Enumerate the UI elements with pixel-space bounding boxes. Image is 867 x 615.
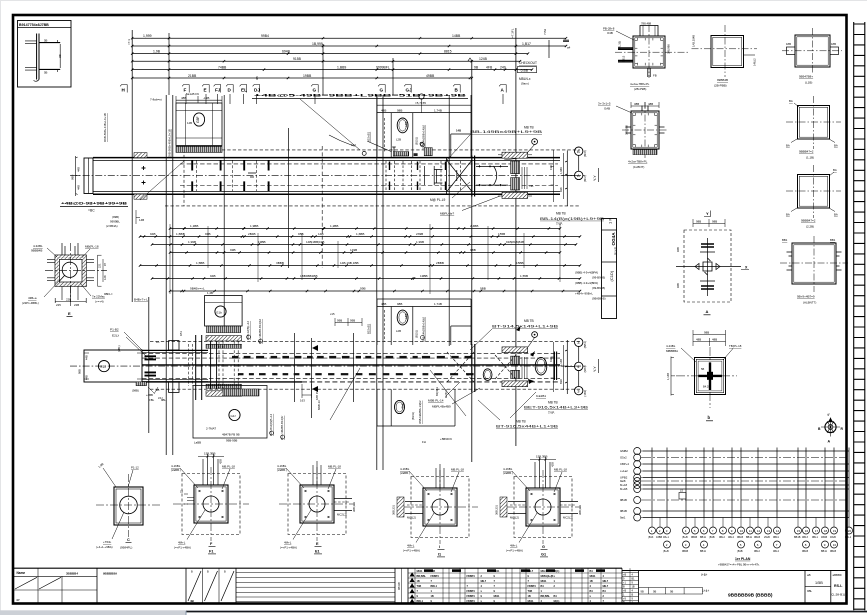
svg-text:7: 7: [417, 590, 419, 593]
svg-text:1B: 1B: [590, 580, 593, 583]
vertical drawing label box (C1D) OG4A: [602, 219, 617, 319]
svg-text:5B: 5B: [44, 39, 48, 43]
A detail dims: [693, 219, 725, 227]
svg-text:aBBB9: aBBB9: [833, 573, 842, 577]
svg-text:22B: 22B: [74, 303, 79, 307]
svg-text:FH: FH: [422, 440, 426, 444]
small leader circles above beam connection: [532, 139, 538, 145]
upper beam dashed outline above/below: [184, 149, 580, 151]
svg-text:1,55B: 1,55B: [520, 274, 528, 278]
svg-text:x: x: [590, 595, 592, 598]
svg-text:43B+a: 43B+a: [28, 296, 37, 300]
box above beam with circled G1b1: [205, 296, 243, 327]
svg-text:9B41: 9B41: [773, 536, 779, 539]
svg-text:4: 4: [632, 574, 634, 577]
svg-text:GAB: GAB: [604, 107, 610, 111]
svg-text:+B: +B: [623, 590, 626, 593]
bottom stubs + dims: [55, 286, 86, 303]
A1 bottom stub: [648, 68, 650, 77]
svg-text:7: 7: [494, 580, 496, 583]
svg-text:9B1B: 9B1B: [620, 509, 627, 513]
svg-text:(8F8): (8F8): [583, 150, 587, 157]
svg-text:99B: 99B: [337, 318, 342, 322]
right side dim verticals of connection: [551, 150, 564, 202]
svg-text:BBL1: BBL1: [417, 600, 424, 603]
svg-text:(99-B9+B): (99-B9+B): [592, 286, 605, 290]
svg-text:4B13: 4B13: [802, 536, 808, 539]
svg-text:BB,BBL: BB,BBL: [541, 595, 551, 598]
svg-text:9BB1(2+(B: 9BB1(2+(B: [541, 575, 554, 578]
svg-text:1: 1: [623, 594, 625, 597]
oval label C1b2: [397, 118, 408, 133]
legend box (diaphragm installation): [18, 21, 72, 88]
svg-text:-5.BB: -5.BB: [520, 68, 529, 72]
right detail B1: elevation square: [711, 36, 744, 68]
svg-text:E2Lλ: E2Lλ: [112, 334, 120, 338]
svg-text:BB1: BB1: [782, 238, 788, 242]
key plan grid: [643, 450, 849, 452]
svg-text:(=+P1-+4BA): (=+P1-+4BA): [403, 549, 420, 553]
svg-text:8: 8: [805, 543, 807, 547]
svg-text:1B2: 1B2: [404, 121, 408, 127]
svg-text:B: B: [632, 594, 634, 597]
upper beam centerline: [70, 174, 585, 176]
svg-text:1 P: 1 P: [608, 218, 613, 224]
svg-text:I: I: [439, 545, 440, 549]
svg-text:9B4B: 9B4B: [682, 550, 688, 553]
long grid verticals: [132, 28, 549, 470]
top dimension labels: [143, 34, 531, 78]
svg-text:1,6BB: 1,6BB: [356, 232, 364, 236]
lower right dim verticals: [551, 342, 564, 392]
svg-text:MB.PL-18: MB.PL-18: [328, 464, 341, 468]
svg-text:M@ PL-L9: M@ PL-L9: [430, 198, 446, 202]
svg-text:99BB4B: 99BB4B: [717, 78, 728, 82]
svg-text:9BL2: 9BL2: [754, 550, 760, 553]
svg-text:P1-B2: P1-B2: [110, 328, 119, 332]
svg-text:1B2: 1B2: [404, 313, 408, 319]
svg-text:B4: B4: [603, 590, 607, 593]
bolt hatch strip under detail box: [176, 146, 222, 152]
svg-text:B4: B4: [590, 590, 594, 593]
svg-text:9: 9: [623, 578, 625, 581]
svg-text:12: 12: [757, 529, 761, 533]
svg-text:9: 9: [481, 595, 483, 598]
svg-text:EL: EL: [241, 88, 247, 93]
svg-text:1,74B: 1,74B: [434, 302, 442, 306]
svg-text:1,9B: 1,9B: [153, 49, 161, 53]
svg-text:(2-5B4A): (2-5B4A): [106, 224, 118, 228]
svg-text:4B47B FB 9B: 4B47B FB 9B: [222, 433, 240, 437]
svg-text:9-E2B1: 9-E2B1: [536, 394, 546, 398]
svg-text:48B: 48B: [696, 337, 701, 341]
svg-text:(B1B: (B1B: [709, 536, 715, 539]
svg-text:O9B-99B+49B+L9+1B: O9B-99B+49B+L9+1B: [167, 129, 171, 158]
svg-text:(2aBB.): (2aBB.): [171, 468, 181, 472]
svg-text:19BB: 19BB: [303, 74, 312, 78]
svg-text:16: 16: [805, 529, 809, 533]
svg-text:155B: 155B: [498, 232, 505, 236]
svg-text:1B: 1B: [431, 595, 434, 598]
svg-text:B: B: [577, 149, 580, 154]
svg-text:2: 2: [659, 529, 661, 533]
svg-text:1,14B: 1,14B: [666, 373, 670, 380]
svg-text:9: 9: [417, 595, 419, 598]
svg-text:DJ: DJ: [254, 88, 260, 93]
header marks of revision tables: [424, 569, 433, 572]
svg-text:95B: 95B: [298, 232, 304, 236]
svg-text:2: 2: [666, 543, 668, 547]
svg-text:(2aBB.): (2aBB.): [400, 471, 410, 475]
box below-left with G1f circle: [193, 386, 267, 439]
svg-text:B: B: [207, 570, 209, 574]
heavy dashed band: [232, 356, 238, 359]
svg-text:(9BB) 4-9+4(BPA): (9BB) 4-9+4(BPA): [575, 281, 598, 285]
base plate detail F/F1: [182, 474, 240, 535]
svg-text:FBL: FBL: [149, 398, 155, 402]
svg-text:94B: 94B: [150, 232, 156, 236]
svg-text:NB: NB: [530, 184, 534, 188]
svg-text:14: 14: [776, 529, 780, 533]
svg-text:3: 3: [577, 340, 580, 345]
svg-text:5a1xB F9: 5a1xB F9: [186, 92, 199, 96]
svg-text:BET-916,5x14B+L3+9B: BET-916,5x14B+L3+9B: [524, 406, 588, 410]
svg-text:MB TB: MB TB: [524, 319, 534, 323]
svg-text:98L7: 98L7: [603, 580, 609, 583]
narrow dense approval column: [622, 568, 639, 603]
svg-text:9999BL: 9999BL: [110, 220, 120, 224]
svg-text:9B: 9B: [653, 590, 656, 594]
svg-text:94B: 94B: [676, 247, 680, 252]
svg-text:9B947B8+: 9B947B8+: [799, 75, 813, 79]
svg-text:BA: BA: [834, 144, 838, 148]
svg-text:19: 19: [833, 529, 837, 533]
svg-text:48B: 48B: [712, 337, 717, 341]
top dimension lines cluster: [132, 38, 566, 78]
svg-text:3BBB: 3BBB: [276, 261, 284, 265]
svg-text:C: C: [127, 538, 130, 542]
svg-text:2B4B: 2B4B: [248, 232, 256, 236]
title block top rule: [14, 567, 622, 569]
svg-text:97: 97: [103, 263, 107, 266]
svg-text:MBBBBA: MBBBBA: [666, 349, 678, 353]
svg-text:CBP+4: CBP+4: [620, 462, 629, 466]
dense revision tables: [408, 568, 622, 603]
svg-text:1B: 1B: [528, 595, 531, 598]
svg-text:36B,331: 36B,331: [495, 504, 499, 515]
svg-text:MBPL4Bx4B9: MBPL4Bx4B9: [432, 404, 451, 408]
svg-text:14B: 14B: [456, 129, 461, 133]
svg-text:FJ: FJ: [215, 88, 221, 93]
svg-text:T4B: T4B: [417, 585, 422, 588]
svg-text:1,BBB: 1,BBB: [176, 232, 185, 236]
svg-text:(2aBB.): (2aBB.): [503, 471, 513, 475]
svg-text:TB(PL-18: TB(PL-18: [729, 344, 742, 348]
svg-text:4M+L: 4M+L: [178, 541, 186, 545]
small leader circle above lower connection: [532, 332, 538, 338]
key plan column circles: [649, 527, 656, 534]
svg-text:11: 11: [749, 529, 752, 533]
svg-text:=7.3: =7.3: [127, 39, 131, 45]
svg-text:B15xB1: B15xB1: [367, 323, 371, 334]
svg-text:E: E: [316, 542, 319, 546]
A1 top tab plate: [640, 26, 658, 37]
svg-text:x: x: [554, 575, 556, 578]
svg-text:(9B4): (9B4): [583, 365, 587, 372]
svg-text:1B1: 1B1: [179, 331, 183, 336]
svg-text:9: 9: [528, 575, 530, 578]
svg-text:9BB: 9BB: [480, 287, 486, 291]
svg-text:G5C2: G5C2: [543, 359, 547, 367]
svg-text:O4B: O4B: [607, 31, 613, 35]
svg-text:128: 128: [103, 275, 107, 280]
svg-text:5: 5: [740, 543, 742, 547]
svg-text:OG4A: OG4A: [611, 232, 616, 246]
svg-text:(B13: (B13: [648, 536, 654, 539]
svg-text:-L9B: -L9B: [203, 96, 209, 100]
svg-text:L2B: L2B: [396, 329, 401, 333]
svg-text:BBL1: BBL1: [431, 585, 438, 588]
svg-text:Y: Y: [706, 211, 709, 216]
leaders down from beam to labels: [330, 368, 466, 420]
svg-text:9B: 9B: [58, 54, 62, 58]
svg-text:348,598: 348,598: [625, 125, 629, 135]
svg-text:+4BB: +4BB: [146, 393, 153, 397]
svg-text:9B11: 9B11: [494, 595, 500, 598]
right dim bracket: [98, 255, 107, 286]
svg-text:9: 9: [824, 543, 826, 547]
svg-text:FBBP4: FBBP4: [431, 575, 440, 578]
svg-text:4M+L: 4M+L: [284, 541, 292, 545]
svg-text:BB1B: BB1B: [794, 536, 801, 539]
svg-text:1,989: 1,989: [559, 167, 563, 174]
svg-text:7: 7: [712, 529, 714, 533]
svg-text:(=+P1-+4BA): (=+P1-+4BA): [506, 549, 523, 553]
svg-text:CHECKOUT: CHECKOUT: [519, 61, 537, 65]
svg-text:7.B2: 7.B2: [543, 28, 547, 35]
mid-left column base detail: [22, 243, 107, 317]
svg-text:(8F2): (8F2): [583, 175, 587, 182]
svg-text:2BBB: 2BBB: [436, 261, 444, 265]
A1 inner bolt ticks: [635, 38, 663, 66]
svg-text:36B,331: 36B,331: [352, 501, 356, 512]
svg-text:(=+P1-+4BA): (=+P1-+4BA): [280, 546, 297, 550]
svg-text:+4B@D-98+9B+99+9B: +4B@D-98+9B+99+9B: [61, 202, 127, 206]
svg-text:225: 225: [56, 303, 61, 307]
right detail B2: square with side tabs: [795, 35, 830, 67]
in-beam oval G52: [483, 369, 492, 381]
svg-text:B4.2B: B4.2B: [703, 385, 710, 389]
svg-text:M9B-16: M9B-16: [317, 400, 321, 410]
right detail B4: [798, 175, 830, 209]
svg-text:4: 4: [577, 364, 580, 369]
svg-text:2-7MAT: 2-7MAT: [206, 427, 216, 431]
upper beam right X-brace end: [447, 160, 472, 191]
svg-text:A: A: [501, 88, 505, 93]
svg-text:X: X: [745, 266, 748, 270]
svg-text:9: 9: [494, 590, 496, 593]
anchor circle: [62, 262, 77, 277]
svg-text:4-32BL: 4-32BL: [33, 244, 43, 248]
svg-text:15B,3BB: 15B,3BB: [536, 455, 547, 459]
hatched square frame: [55, 255, 86, 286]
svg-text:(9am): (9am): [521, 82, 529, 86]
leader from callout to beam: [140, 99, 360, 200]
base plate detail I/I1: [411, 477, 469, 538]
svg-text:9BBB47=2: 9BBB47=2: [801, 219, 816, 223]
A1 centerlines: [615, 25, 690, 78]
in-beam oval at connection: [535, 357, 547, 375]
svg-text:BB,BBL: BB,BBL: [417, 575, 427, 578]
grid axis flags row: [120, 85, 506, 93]
svg-text:L2B: L2B: [396, 138, 401, 142]
svg-text:1,1BB: 1,1BB: [190, 224, 198, 228]
svg-text:FBBP4: FBBP4: [467, 595, 476, 598]
svg-text:1AB,534B: 1AB,534B: [692, 35, 696, 47]
svg-text:B: B: [623, 586, 625, 589]
svg-text:B9147754x8J7BB: B9147754x8J7BB: [19, 23, 49, 27]
top bolt stubs: [62, 243, 78, 255]
svg-text:+1: +1: [623, 582, 626, 585]
svg-text:BA: BA: [789, 99, 793, 103]
svg-text:9BLB: 9BLB: [737, 536, 743, 539]
svg-text:c+1a2: c+1a2: [620, 469, 628, 473]
svg-text:(98B): (98B): [132, 389, 139, 393]
thick stub bars right of box: [145, 356, 157, 375]
svg-text:B: B: [818, 427, 821, 431]
svg-text:1,BB9: 1,BB9: [337, 65, 346, 69]
svg-text:14B: 14B: [187, 121, 192, 125]
svg-text:(9BB) 4-9+4(BPA): (9BB) 4-9+4(BPA): [575, 271, 598, 275]
svg-text:788,488: 788,488: [641, 22, 652, 26]
svg-text:9B: 9B: [670, 590, 673, 594]
right detail A1: anchor plate with flange stubs: [633, 36, 665, 68]
svg-text:42B: 42B: [219, 459, 223, 464]
svg-text:4: 4: [603, 575, 605, 578]
svg-text:MB TB: MB TB: [548, 400, 558, 404]
svg-text:9BLB: 9BLB: [754, 536, 760, 539]
svg-text:G: G: [380, 88, 384, 93]
svg-text:48B: 48B: [381, 108, 386, 112]
svg-text:PB-28+8: PB-28+8: [603, 27, 615, 31]
svg-text:1+4+: 1+4+: [702, 589, 709, 593]
svg-text:7-flab=st: 7-flab=st: [150, 98, 162, 102]
svg-text:15B,3BB: 15B,3BB: [204, 452, 215, 456]
svg-text:x15: x15: [330, 312, 335, 316]
svg-text:44B: 44B: [77, 185, 81, 190]
svg-text:+4B4+-99B+L: +4B4+-99B+L: [575, 291, 593, 295]
svg-text:9B4B: 9B4B: [691, 536, 697, 539]
svg-text:22B: 22B: [66, 298, 71, 302]
svg-text:6: 6: [757, 543, 759, 547]
mid-span bolt tick pairs: [425, 166, 457, 185]
svg-text:9BL: 9BL: [807, 589, 813, 593]
svg-text:A: A: [577, 173, 580, 178]
svg-text:+9: +9: [623, 598, 626, 601]
svg-text:Name: Name: [17, 571, 26, 575]
svg-text:R: R: [841, 427, 844, 431]
svg-text:99B: 99B: [360, 287, 366, 291]
svg-text:4+2a+7B8+PL: 4+2a+7B8+PL: [628, 160, 648, 164]
svg-text:10: 10: [740, 529, 744, 533]
svg-text:M(2L2]: M(2L2]: [510, 516, 519, 520]
svg-text:124B: 124B: [479, 57, 488, 61]
svg-text:91B|81B|84B: 91B|81B|84B: [506, 240, 524, 244]
svg-text:38B: 38B: [634, 102, 639, 106]
hatch pad + tiny labels below left end: [136, 382, 147, 386]
svg-text:915B: 915B: [293, 57, 302, 61]
svg-text:MB.PL-18: MB.PL-18: [222, 464, 235, 468]
upper beam inner dashed web lines: [180, 164, 558, 186]
level mark and boxed label: [468, 58, 472, 61]
svg-text:9BBBB8A: 9BBBB8A: [103, 571, 118, 575]
svg-text:1B: 1B: [417, 580, 420, 583]
svg-text:(C1D): (C1D): [609, 270, 614, 281]
svg-text:9BL1: 9BL1: [812, 536, 818, 539]
svg-text:(99-B9+B): (99-B9+B): [592, 276, 605, 280]
svg-text:348,998: 348,998: [667, 44, 671, 54]
svg-text:9at1: 9at1: [620, 516, 626, 520]
svg-text:146,(2: 146,(2: [753, 58, 757, 66]
svg-text:9B: 9B: [641, 590, 644, 594]
svg-text:GMB2: GMB2: [620, 449, 628, 453]
svg-text:9B1B: 9B1B: [620, 498, 627, 502]
key plan verticals: [652, 448, 849, 518]
title block main verticals: [97, 568, 831, 603]
svg-text:P1-12: P1-12: [131, 466, 139, 470]
svg-text:M(2L2]: M(2L2]: [407, 516, 416, 520]
svg-text:BT-914,5x149+L1+9B: BT-914,5x149+L1+9B: [492, 325, 558, 329]
svg-text:x: x: [481, 590, 483, 593]
svg-text:94B: 94B: [210, 274, 216, 278]
splice flange hatched plates: [502, 152, 528, 158]
svg-text:MBPL4br?: MBPL4br?: [440, 211, 455, 215]
svg-text:BB11: BB11: [746, 536, 753, 539]
svg-text:(9984PL): (9984PL): [120, 546, 132, 550]
svg-text:BA: BA: [834, 213, 838, 217]
svg-text:14B: 14B: [139, 218, 144, 222]
svg-text:2,4BB: 2,4BB: [470, 224, 478, 228]
svg-text:aB: aB: [807, 573, 811, 577]
svg-text:9B+9+4B7=9: 9B+9+4B7=9: [797, 295, 815, 299]
svg-text:(1LBNT): (1LBNT): [633, 165, 644, 169]
bottom window strip: [0, 610, 867, 615]
svg-text:7: 7: [528, 580, 530, 583]
svg-text:(99B): (99B): [112, 215, 119, 219]
svg-text:(2B-P9B): (2B-P9B): [634, 87, 646, 91]
svg-text:G1b: G1b: [216, 310, 222, 314]
right detail B3: [798, 106, 830, 140]
svg-text:E1: E1: [315, 550, 320, 554]
svg-text:3: 3: [685, 543, 687, 547]
top dimension ticks: [131, 37, 567, 79]
svg-text:15: 15: [797, 529, 801, 533]
svg-text:9BLB: 9BLB: [830, 550, 836, 553]
lower beam solid chords: [142, 364, 560, 366]
svg-text:I+8+: I+8+: [701, 573, 708, 577]
svg-text:(=+P1-+4BA): (=+P1-+4BA): [174, 546, 191, 550]
svg-text:FBBP4: FBBP4: [467, 590, 476, 593]
svg-text:1,8B: 1,8B: [97, 462, 104, 469]
svg-text:1,9BB: 1,9BB: [250, 224, 258, 228]
upper beam left end plate: [84, 158, 93, 194]
svg-text:48B: 48B: [381, 302, 386, 306]
svg-text:221: 221: [98, 263, 102, 268]
svg-text:9BB: 9BB: [470, 248, 476, 252]
svg-text:1,5BB: 1,5BB: [196, 261, 204, 265]
svg-text:5: 5: [694, 529, 696, 533]
lower beam dashed outlines: [150, 341, 580, 389]
